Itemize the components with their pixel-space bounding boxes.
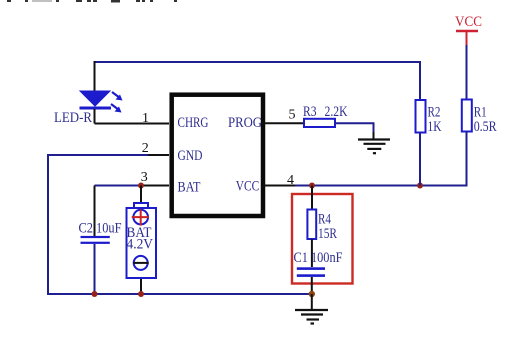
wire left rail bbox=[47, 154, 49, 294]
wire battery bottom bbox=[140, 279, 142, 294]
svg-text:PROG: PROG bbox=[228, 115, 262, 131]
svg-text:VCC: VCC bbox=[455, 14, 482, 30]
wire R1 bottom bbox=[466, 132, 468, 187]
svg-text:BAT: BAT bbox=[178, 180, 201, 196]
svg-text:C1 100nF: C1 100nF bbox=[294, 250, 343, 266]
svg-text:1K: 1K bbox=[428, 119, 442, 135]
wire below C2 bbox=[94, 244, 96, 294]
wire C2 branch bbox=[94, 186, 96, 237]
resistor R4 bbox=[307, 210, 337, 243]
junction bbox=[417, 183, 423, 189]
junction bbox=[309, 183, 315, 189]
svg-text:C2 10uF: C2 10uF bbox=[79, 221, 122, 237]
wire LED cathode vertical bbox=[94, 109, 96, 124]
svg-text:R3: R3 bbox=[303, 104, 317, 120]
svg-text:CHRG: CHRG bbox=[178, 115, 209, 131]
wire bottom rail bbox=[47, 293, 312, 295]
wire top rail bbox=[95, 61, 421, 63]
resistor R2 bbox=[416, 100, 442, 135]
wire R4 to C1 bbox=[311, 239, 313, 267]
junction bbox=[92, 291, 98, 297]
capacitor C2 bbox=[79, 221, 122, 244]
power VCC bbox=[455, 14, 482, 45]
IC U1 bbox=[172, 95, 263, 216]
clipped title text bbox=[7, 0, 177, 3]
wire VCC to R1 bbox=[466, 45, 468, 100]
svg-text:VCC: VCC bbox=[236, 179, 259, 195]
wire R3 to ground bbox=[335, 123, 374, 133]
pin 1 wire bbox=[95, 123, 170, 125]
wire C1 bottom bbox=[311, 277, 313, 294]
junction bbox=[309, 291, 315, 297]
svg-text:4.2V: 4.2V bbox=[127, 237, 154, 253]
svg-text:15R: 15R bbox=[318, 226, 337, 242]
junction bbox=[138, 291, 144, 297]
ground bbox=[295, 310, 328, 324]
ground bbox=[358, 140, 390, 154]
svg-text:5: 5 bbox=[289, 108, 296, 123]
resistor R3 bbox=[303, 104, 348, 127]
junction battery top bbox=[138, 183, 144, 189]
wire R2 top bbox=[419, 61, 421, 100]
resistor R1 bbox=[462, 100, 497, 136]
wire R2 bottom bbox=[419, 133, 421, 186]
wire battery top bbox=[140, 186, 142, 205]
pin 5 wire bbox=[263, 122, 304, 124]
svg-text:LED-R: LED-R bbox=[54, 110, 92, 126]
svg-text:0.5R: 0.5R bbox=[474, 119, 497, 135]
svg-text:1: 1 bbox=[142, 111, 149, 126]
wire R4 top bbox=[311, 186, 313, 211]
capacitor C1 bbox=[294, 250, 343, 277]
pin 3 wire bbox=[95, 185, 170, 187]
battery BAT 4.2V bbox=[127, 203, 157, 278]
red highlight box bbox=[292, 194, 353, 284]
wire ground stub bbox=[311, 294, 313, 310]
svg-text:2.2K: 2.2K bbox=[325, 104, 348, 120]
pin 2 wire bbox=[48, 154, 169, 156]
svg-text:GND: GND bbox=[178, 148, 203, 164]
svg-text:4: 4 bbox=[287, 173, 294, 188]
pin 4 wire bbox=[263, 185, 467, 187]
wire LED anode vertical bbox=[94, 61, 96, 92]
LED LED-R bbox=[54, 91, 123, 126]
svg-text:2: 2 bbox=[142, 141, 149, 156]
